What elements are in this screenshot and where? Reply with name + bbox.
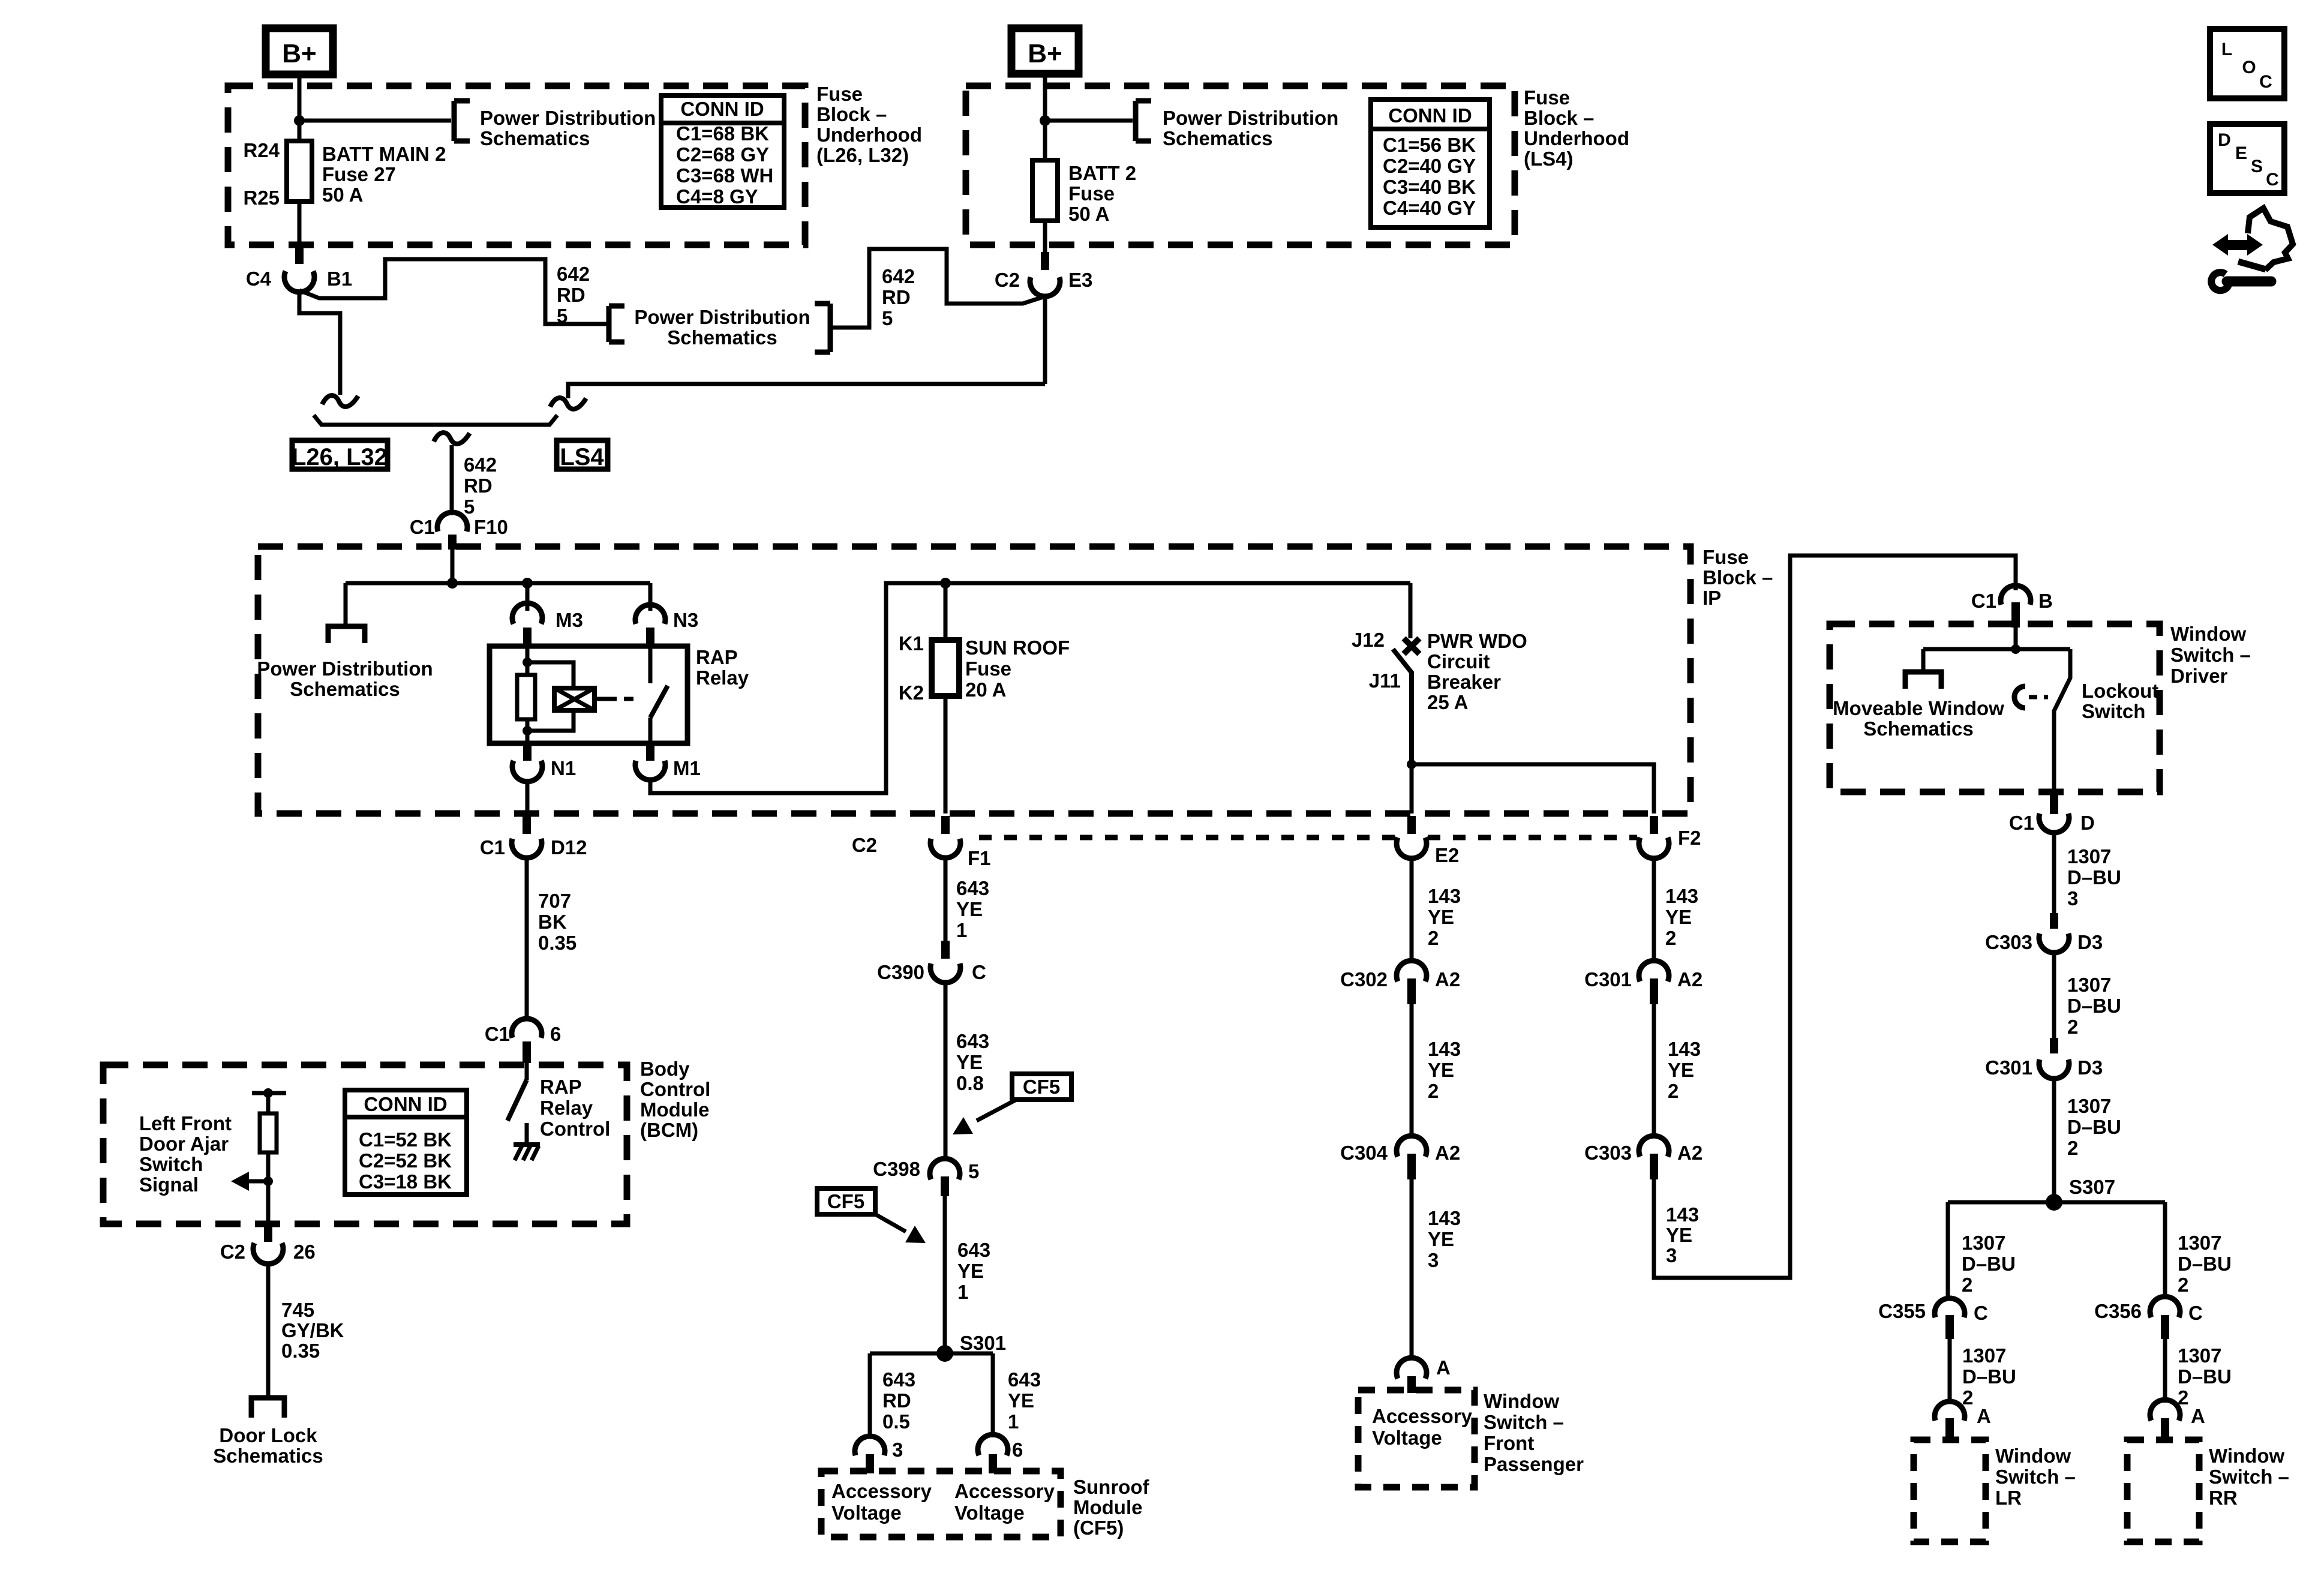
svg-text:B: B (2038, 590, 2053, 612)
svg-text:642: 642 (464, 454, 497, 476)
fuse SUN ROOF 20A (932, 640, 959, 696)
connector M1 cup (635, 761, 665, 780)
svg-text:C2: C2 (995, 269, 1020, 291)
svg-text:143: 143 (1665, 885, 1698, 907)
svg-text:RD: RD (464, 475, 493, 497)
RAP relay control switch lower stub (525, 1123, 529, 1145)
svg-text:D12: D12 (551, 836, 587, 858)
node bus junction M3 (522, 578, 533, 589)
fuse block underhood (LS4) dashed box (966, 86, 1515, 245)
svg-text:K1: K1 (899, 632, 924, 655)
svg-text:A: A (1977, 1405, 1991, 1427)
connector C356/C pin (2161, 1315, 2169, 1339)
svg-text:L26, L32: L26, L32 (292, 444, 388, 470)
wire N1 to IP box edge (526, 781, 530, 813)
wire C304 to accessory voltage (1410, 1179, 1414, 1359)
svg-text:K2: K2 (899, 682, 924, 704)
svg-text:(LS4): (LS4) (1524, 148, 1574, 170)
svg-text:C4=40 GY: C4=40 GY (1383, 197, 1476, 219)
node bus junction F10 (447, 578, 458, 589)
wire break symbol (LS4 side) (550, 398, 586, 409)
wire junction to power distribution bracket (299, 119, 451, 123)
wire E3 down to long feed (1043, 296, 1047, 384)
svg-text:Relay: Relay (540, 1097, 593, 1119)
lockout feed rail (1923, 647, 2070, 652)
wire C390 to C398 (944, 983, 948, 1159)
wire S301 to sunroof pin 3 (868, 1353, 872, 1437)
connector C2/E3 cup (1030, 277, 1060, 296)
svg-text:Power Distribution: Power Distribution (1163, 107, 1338, 129)
svg-text:Voltage: Voltage (954, 1502, 1025, 1524)
conn id table (BCM) (345, 1090, 467, 1194)
svg-text:Body: Body (640, 1058, 690, 1080)
svg-text:2: 2 (1962, 1274, 1972, 1296)
svg-text:A: A (2191, 1405, 2205, 1427)
wire D to C303 D3 (2052, 833, 2056, 924)
svg-text:642: 642 (882, 265, 915, 287)
svg-text:Underhood: Underhood (1524, 127, 1629, 149)
svg-text:BK: BK (538, 911, 567, 933)
wire B+ to junction (right) (1043, 74, 1047, 121)
svg-text:2: 2 (1668, 1080, 1679, 1102)
svg-text:Accessory: Accessory (831, 1480, 932, 1502)
wire C303 to window switch driver feed (1654, 556, 2016, 1278)
svg-text:Door Lock: Door Lock (219, 1424, 317, 1446)
svg-text:YE: YE (1666, 1224, 1692, 1246)
svg-text:D3: D3 (2077, 931, 2103, 953)
CF5 harness box (lower) (817, 1188, 875, 1214)
wire C303 D3 to C301 D3 (2052, 953, 2056, 1049)
svg-text:D–BU: D–BU (2067, 1116, 2121, 1138)
svg-text:A2: A2 (1435, 1142, 1460, 1164)
svg-text:C398: C398 (873, 1158, 920, 1180)
connector sunroof pin 6 cup (978, 1434, 1008, 1455)
svg-text:C: C (2266, 170, 2279, 190)
connector F2 pin (1650, 816, 1658, 834)
svg-text:LS4: LS4 (560, 444, 604, 470)
wire fuse to pin B1 (298, 202, 302, 246)
wire B+ to junction (298, 74, 302, 121)
node junction on batt feed (294, 115, 305, 126)
svg-text:D–BU: D–BU (1962, 1253, 2016, 1275)
svg-text:C390: C390 (877, 961, 924, 983)
svg-text:S301: S301 (960, 1332, 1006, 1354)
door ajar signal arrow (247, 1179, 268, 1184)
connector C303/D3 pin (2050, 913, 2058, 929)
svg-text:D: D (2218, 130, 2231, 150)
CF5 harness box (upper) (1012, 1074, 1071, 1100)
svg-text:Accessory: Accessory (1372, 1405, 1473, 1427)
svg-text:Fuse: Fuse (1703, 546, 1749, 568)
svg-text:5: 5 (464, 496, 475, 518)
svg-text:D3: D3 (2077, 1056, 2103, 1079)
wire breaker junction to E2 (1410, 764, 1414, 813)
svg-text:Window: Window (2170, 623, 2246, 645)
svg-text:RD: RD (557, 284, 585, 306)
circuit breaker contact X (J12) (1404, 638, 1419, 654)
svg-text:Underhood: Underhood (816, 124, 922, 146)
conn id table (L26,L32 block) (661, 95, 784, 208)
node relay coil top (523, 658, 532, 667)
svg-text:25 A: 25 A (1427, 691, 1468, 713)
relay switch fixed contact from N3 (648, 646, 653, 683)
svg-text:5: 5 (557, 305, 568, 327)
wire C301 D3 to splice S307 (2052, 1079, 2056, 1202)
splice S301 (936, 1345, 953, 1362)
connector C301/D3 pin (2050, 1038, 2058, 1053)
connector N3 pin (646, 628, 654, 648)
wire fuse to pin E3 (1043, 221, 1047, 252)
svg-text:C: C (972, 961, 986, 983)
svg-text:Switch –: Switch – (1484, 1411, 1564, 1433)
connector C390 pin (941, 941, 950, 959)
connector C1/D12 pin (523, 816, 531, 834)
svg-text:YE: YE (1428, 1228, 1454, 1250)
svg-text:C2=40 GY: C2=40 GY (1383, 155, 1476, 177)
connector A pin (LR) (1945, 1418, 1954, 1442)
svg-text:C301: C301 (1584, 968, 1632, 990)
svg-text:Block –: Block – (1524, 107, 1594, 129)
wire D12 to BCM C1/6 (525, 858, 529, 1020)
accessory voltage dashed box (front passenger) (1358, 1390, 1475, 1487)
connector A cup (RR) (2150, 1400, 2180, 1421)
wire break above 642 RD 5 (middle) (434, 433, 470, 444)
svg-text:Lockout: Lockout (2082, 680, 2158, 702)
wire C301 to C303 (1652, 1004, 1656, 1136)
svg-text:CONN ID: CONN ID (364, 1093, 447, 1115)
svg-text:Module: Module (640, 1098, 709, 1121)
wire junction to fuse BATT MAIN 2 (298, 121, 302, 141)
svg-text:BATT MAIN 2: BATT MAIN 2 (322, 143, 446, 165)
wire M3 into relay (526, 646, 530, 662)
connector sunroof pin 3 cup (855, 1436, 885, 1455)
DESC reference box (2210, 124, 2284, 193)
svg-text:PWR WDO: PWR WDO (1427, 630, 1527, 652)
connector C2/F1 cup (930, 839, 960, 858)
svg-text:Switch –: Switch – (2209, 1466, 2289, 1488)
connector E2 cup (1397, 837, 1427, 858)
svg-text:1: 1 (957, 1281, 968, 1303)
svg-text:C1: C1 (410, 516, 435, 538)
connector C1/B cup (2001, 586, 2031, 605)
svg-text:20 A: 20 A (965, 679, 1006, 701)
svg-text:Switch: Switch (2082, 700, 2145, 722)
svg-text:Driver: Driver (2170, 665, 2228, 687)
svg-text:D: D (2080, 812, 2095, 834)
svg-text:Block –: Block – (1703, 566, 1773, 589)
connector A cup (front passenger) (1397, 1358, 1427, 1379)
connector C302/A2 pin (1407, 978, 1416, 1004)
svg-text:IP: IP (1703, 587, 1721, 609)
svg-text:B1: B1 (327, 268, 352, 290)
connector C303/A2 pin (1650, 1154, 1658, 1179)
svg-text:C1=52 BK: C1=52 BK (359, 1128, 452, 1151)
svg-text:C3=68 WH: C3=68 WH (676, 164, 773, 187)
connect bracket: Power Distribution Schematics (right top) (1133, 101, 1139, 141)
svg-text:6: 6 (1012, 1439, 1023, 1461)
svg-text:Passenger: Passenger (1484, 1453, 1584, 1475)
connector F2 cup (1639, 837, 1669, 858)
wire B1 to 642 RD right branch (299, 259, 608, 324)
connector C1/D12 cup (512, 839, 542, 858)
svg-text:Power Distribution: Power Distribution (634, 306, 810, 328)
svg-text:Schematics: Schematics (213, 1445, 323, 1467)
wire bus to M3 (526, 583, 530, 611)
svg-text:Breaker: Breaker (1427, 671, 1501, 693)
svg-text:Fuse: Fuse (816, 83, 863, 105)
svg-text:5: 5 (882, 307, 893, 329)
svg-text:C303: C303 (1584, 1142, 1632, 1164)
svg-text:B+: B+ (1028, 39, 1062, 68)
svg-text:Control: Control (540, 1118, 610, 1140)
svg-text:1307: 1307 (2178, 1344, 2221, 1367)
ground symbol (RAP relay control) (514, 1142, 540, 1147)
svg-text:A2: A2 (1677, 1142, 1703, 1164)
service icon: animal head (2248, 208, 2293, 270)
svg-text:YE: YE (1668, 1059, 1694, 1081)
circuit breaker blade (1393, 649, 1412, 764)
svg-text:C1=68 BK: C1=68 BK (676, 122, 769, 145)
svg-text:RAP: RAP (540, 1076, 582, 1098)
svg-text:E2: E2 (1435, 844, 1459, 866)
svg-text:F2: F2 (1678, 827, 1701, 849)
connector C303/D3 cup (2039, 933, 2069, 953)
svg-text:Window: Window (1484, 1390, 1559, 1412)
svg-text:F1: F1 (968, 847, 991, 869)
svg-text:1307: 1307 (1962, 1344, 2006, 1367)
svg-text:C2: C2 (220, 1241, 245, 1263)
connector C1/6 cup (512, 1019, 542, 1038)
svg-text:Schematics: Schematics (1863, 718, 1973, 740)
circuit breaker feed (1409, 583, 1413, 638)
svg-text:RD: RD (882, 1389, 911, 1412)
svg-text:C1: C1 (485, 1023, 510, 1045)
svg-text:M1: M1 (673, 757, 701, 779)
connector C304/A2 cup (1397, 1136, 1427, 1157)
svg-text:3: 3 (2067, 887, 2078, 909)
relay coil parallel branch wires (527, 662, 574, 688)
svg-text:A2: A2 (1677, 968, 1703, 990)
svg-text:1307: 1307 (1962, 1232, 2005, 1254)
wire F10 to bus (451, 550, 455, 583)
svg-text:Block –: Block – (816, 103, 887, 125)
svg-text:O: O (2242, 58, 2256, 77)
connector C1/F10 cup (437, 512, 467, 532)
svg-text:2: 2 (2178, 1274, 2188, 1296)
svg-text:C302: C302 (1340, 968, 1388, 990)
svg-text:Door Ajar: Door Ajar (139, 1133, 229, 1155)
connector C1/6 pin into BCM (523, 1041, 531, 1063)
svg-text:1307: 1307 (2067, 974, 2111, 996)
fuse F27 BATT MAIN 2 50A (287, 141, 312, 202)
svg-text:143: 143 (1666, 1203, 1699, 1226)
svg-text:26: 26 (293, 1241, 316, 1263)
wire C355 to LR switch (1948, 1339, 1952, 1403)
svg-text:Front: Front (1484, 1432, 1534, 1454)
svg-text:N3: N3 (673, 609, 698, 631)
relay switch output (648, 718, 653, 743)
svg-text:J11: J11 (1369, 670, 1401, 692)
wire M1 to right bus (650, 583, 1410, 793)
wire junction to bracket (right) (1045, 119, 1133, 123)
svg-text:Voltage: Voltage (831, 1502, 902, 1524)
svg-text:1307: 1307 (2067, 1095, 2111, 1117)
splice S307 (2046, 1194, 2062, 1211)
connect bracket: Power Distribution Schematics (left) (452, 101, 457, 141)
connector C398/5 pin (941, 1176, 949, 1196)
svg-text:C355: C355 (1878, 1300, 1926, 1322)
svg-text:Circuit: Circuit (1427, 650, 1490, 673)
wire F2 to C301 (1652, 857, 1656, 961)
svg-text:Fuse: Fuse (1524, 86, 1570, 109)
svg-text:C3=40 BK: C3=40 BK (1383, 176, 1476, 198)
sunroof module dashed box (821, 1471, 1061, 1537)
svg-text:Left Front: Left Front (139, 1112, 232, 1134)
connect bracket: Power Distribution Schematics (IP) (328, 626, 365, 643)
svg-text:Schematics: Schematics (480, 127, 590, 149)
connect bracket: Moveable Window Schematics (1905, 672, 1941, 689)
svg-text:C1: C1 (480, 836, 505, 858)
window switch RR dashed box (2127, 1440, 2199, 1542)
wire C398 to S301 (943, 1196, 947, 1353)
svg-text:50 A: 50 A (322, 184, 363, 206)
svg-text:Voltage: Voltage (1372, 1427, 1442, 1449)
node relay coil bottom (523, 726, 532, 736)
svg-text:YE: YE (1428, 906, 1454, 928)
connector C4/B1 pin (295, 246, 304, 264)
svg-text:643: 643 (1008, 1368, 1041, 1391)
connector C355/C cup (1935, 1298, 1965, 1317)
relay coil X-box (554, 688, 594, 710)
svg-text:J12: J12 (1352, 629, 1385, 651)
connector E2 pin (1407, 816, 1416, 834)
svg-text:D–BU: D–BU (2067, 866, 2121, 888)
window switch driver dashed box (1830, 624, 2160, 792)
svg-text:Signal: Signal (139, 1173, 199, 1196)
svg-text:Power Distribution: Power Distribution (480, 107, 656, 129)
engine option brace (314, 415, 557, 425)
svg-text:C303: C303 (1985, 931, 2032, 953)
svg-text:YE: YE (1008, 1389, 1034, 1412)
IP bus wire (left) (346, 581, 650, 586)
connector C2/26 pin (264, 1224, 272, 1242)
svg-text:C2=68 GY: C2=68 GY (676, 143, 769, 166)
svg-text:Moveable Window: Moveable Window (1833, 697, 2004, 719)
fuse block IP dashed box (258, 547, 1691, 813)
wire break symbol (L26,L32 side) (322, 395, 358, 407)
svg-text:2: 2 (1428, 1080, 1439, 1102)
svg-text:(CF5): (CF5) (1073, 1517, 1124, 1539)
connector C398/5 cup (930, 1158, 960, 1179)
connector sunroof pin 6 pin (989, 1454, 997, 1473)
service icon: double arrow (2212, 234, 2228, 256)
connector C1/D pin (2050, 795, 2058, 814)
svg-text:RR: RR (2209, 1487, 2238, 1509)
connector C390/C cup (930, 963, 960, 983)
node sunroof fuse tap (940, 578, 951, 589)
svg-text:6: 6 (550, 1023, 561, 1045)
wire E2 to C302 (1410, 857, 1414, 961)
relay coil to switch dashed link (594, 697, 607, 701)
svg-text:(BCM): (BCM) (640, 1119, 698, 1141)
svg-text:C356: C356 (2094, 1300, 2142, 1322)
svg-text:D–BU: D–BU (2067, 995, 2121, 1017)
relay coil resistor (517, 675, 535, 719)
svg-text:YE: YE (957, 1260, 984, 1282)
svg-text:Module: Module (1073, 1496, 1142, 1518)
connect bracket: Power Distribution Schematics (mid) (606, 306, 612, 342)
node junction batt feed (right) (1040, 115, 1050, 126)
svg-text:CF5: CF5 (827, 1190, 864, 1212)
svg-text:643: 643 (956, 877, 989, 899)
wire bus to Power Distribution down-bracket (344, 583, 348, 626)
conn id table (LS4 block) (1371, 100, 1490, 227)
svg-text:Sunroof: Sunroof (1073, 1476, 1149, 1498)
wire C356 to RR switch (2163, 1339, 2167, 1403)
svg-text:S: S (2251, 157, 2263, 176)
wire to moveable window bracket (1921, 649, 1926, 672)
wire breaker junction to F2 (1412, 764, 1654, 813)
svg-text:3: 3 (892, 1439, 903, 1461)
wire junction to fuse BATT 2 (1043, 121, 1047, 160)
RAP relay box (490, 646, 687, 743)
wire S307 to C355 (1946, 1202, 1950, 1298)
svg-text:E: E (2235, 143, 2247, 163)
svg-text:RAP: RAP (696, 646, 738, 668)
door ajar switch top rail (252, 1091, 286, 1095)
svg-text:2: 2 (1665, 927, 1676, 949)
svg-text:R25: R25 (243, 187, 280, 209)
svg-text:143: 143 (1428, 1038, 1461, 1060)
connector C1/D cup (2039, 813, 2069, 833)
svg-text:2: 2 (1962, 1386, 1973, 1409)
svg-text:143: 143 (1428, 885, 1461, 907)
connector M3 cup (512, 603, 542, 624)
wire bus corner to N3 (648, 583, 653, 611)
connector C1/B pin (2011, 602, 2020, 628)
svg-text:C304: C304 (1340, 1142, 1388, 1164)
CF5 arrow (upper) (977, 1100, 1016, 1121)
svg-text:Control: Control (640, 1078, 710, 1100)
svg-text:C: C (2259, 72, 2272, 92)
svg-text:Accessory: Accessory (954, 1480, 1055, 1502)
svg-text:YE: YE (956, 1051, 983, 1073)
svg-text:0.8: 0.8 (956, 1072, 984, 1094)
connector C301/D3 cup (2039, 1059, 2069, 1079)
connector C355/C pin (1945, 1315, 1954, 1339)
svg-text:C1: C1 (2009, 812, 2034, 834)
svg-text:YE: YE (956, 898, 983, 920)
CF5 arrow (lower) (875, 1214, 906, 1232)
svg-text:C4=8 GY: C4=8 GY (676, 185, 758, 208)
svg-text:1307: 1307 (2178, 1232, 2221, 1254)
svg-text:(L26, L32): (L26, L32) (816, 144, 909, 166)
wire door ajar to C2/26 (266, 1181, 271, 1224)
connector A pin (front passenger) (1407, 1376, 1416, 1393)
svg-text:Fuse: Fuse (965, 658, 1011, 680)
svg-text:D–BU: D–BU (2178, 1365, 2232, 1388)
window switch LR dashed box (1914, 1440, 1986, 1542)
svg-text:RD: RD (882, 286, 911, 308)
connector C303/A2 cup (1639, 1136, 1669, 1157)
splice S301 split rail (870, 1352, 993, 1356)
svg-text:C1=56 BK: C1=56 BK (1383, 134, 1476, 156)
wire C302 to C304 (1410, 1004, 1414, 1136)
svg-text:SUN ROOF: SUN ROOF (965, 637, 1070, 659)
engine code box L26, L32 (292, 440, 388, 469)
node breaker output junction (1407, 760, 1416, 769)
svg-text:C: C (1974, 1302, 1988, 1324)
